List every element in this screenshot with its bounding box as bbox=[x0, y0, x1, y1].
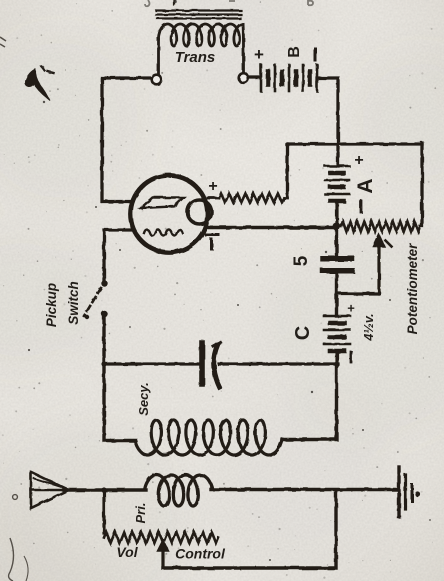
svg-text:Pickup: Pickup bbox=[44, 283, 59, 327]
svg-text:5: 5 bbox=[291, 255, 312, 266]
svg-text:+: + bbox=[254, 45, 264, 64]
svg-text:Secy.: Secy. bbox=[136, 382, 151, 416]
svg-text:A: A bbox=[354, 178, 377, 193]
svg-text:Control: Control bbox=[175, 546, 226, 562]
svg-text:Vol: Vol bbox=[116, 544, 138, 560]
svg-text:+: + bbox=[354, 152, 363, 169]
svg-text:B: B bbox=[286, 46, 303, 58]
svg-text:C: C bbox=[292, 326, 314, 340]
svg-text:+: + bbox=[347, 301, 355, 316]
svg-text:Pri.: Pri. bbox=[133, 503, 148, 524]
svg-text:+: + bbox=[208, 178, 217, 195]
svg-text:Trans: Trans bbox=[175, 49, 216, 66]
svg-text:4½v.: 4½v. bbox=[362, 313, 376, 341]
svg-text:Potentiometer: Potentiometer bbox=[405, 243, 420, 335]
svg-text:Switch: Switch bbox=[66, 281, 81, 325]
